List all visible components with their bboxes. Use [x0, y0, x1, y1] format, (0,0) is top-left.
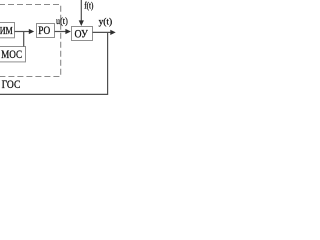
svg-text:ОУ: ОУ: [75, 28, 89, 40]
output arrowhead: [110, 30, 115, 35]
block IM (actuator): [0, 23, 15, 38]
dashed controller boundary frame: [0, 5, 61, 77]
wire IM to RO: [15, 31, 30, 33]
svg-text:u(t): u(t): [56, 16, 68, 26]
svg-text:y(t): y(t): [99, 16, 113, 26]
feedback wire GOS (down from output, left along bottom): [0, 32, 108, 94]
disturbance wire f(t) into OU top: [80, 0, 82, 21]
arrowhead into RO: [29, 29, 34, 34]
output wire y(t): [93, 31, 112, 33]
svg-text:f(t): f(t): [84, 0, 93, 10]
svg-text:ГОС: ГОС: [2, 77, 21, 91]
svg-text:ИМ: ИМ: [0, 26, 13, 37]
svg-text:МОС: МОС: [1, 47, 22, 61]
block RO (regulating organ): [37, 24, 55, 38]
block OU (controlled plant): [72, 27, 93, 41]
wire RO to OU: [55, 31, 66, 33]
arrowhead into OU: [65, 29, 71, 34]
svg-text:РО: РО: [38, 25, 50, 37]
arrowhead into OU top: [79, 20, 84, 26]
block MOS (local feedback): [0, 47, 26, 62]
tap wire down to MOS: [23, 32, 25, 47]
